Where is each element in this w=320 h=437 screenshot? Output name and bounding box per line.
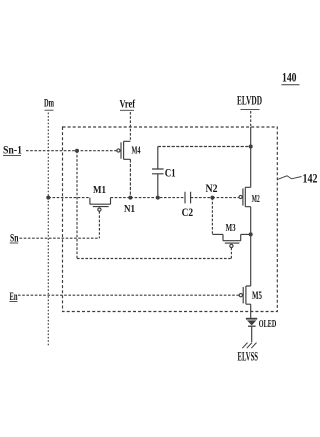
node junction data line / M1 row: [46, 196, 50, 200]
net label Sn: [10, 233, 19, 245]
svg-text:ELVSS: ELVSS: [238, 350, 259, 364]
net label Dm: [44, 96, 54, 111]
svg-text:142: 142: [303, 172, 318, 186]
transistor M3: [212, 222, 250, 247]
svg-text:ELVDD: ELVDD: [237, 94, 262, 108]
node junction on Sn-1: [75, 149, 79, 153]
capacitor C1: [152, 147, 176, 198]
wire N1 to C2: [130, 197, 185, 199]
label 140: [282, 69, 300, 84]
wire C2 to N2: [191, 197, 213, 199]
svg-text:Sn-1: Sn-1: [3, 143, 22, 157]
wire scan line Sn-1: [26, 150, 117, 152]
svg-text:N1: N1: [124, 203, 135, 215]
wire M1 gate lead: [98, 211, 100, 238]
wire N2 down to M3: [211, 198, 213, 235]
wire scan line Sn: [20, 237, 100, 239]
wire Vref lead: [129, 112, 131, 141]
wire M3 gate lead: [230, 248, 232, 259]
wire Sn-1 net vertical: [76, 151, 78, 259]
pixel boundary dashed box 142: [63, 127, 278, 312]
data line Dm (vertical dotted): [47, 113, 49, 347]
net label Sn-1: [3, 143, 22, 157]
label 142: [278, 172, 318, 186]
capacitor C2: [182, 192, 194, 219]
transistor M4: [117, 141, 141, 159]
transistor M2: [239, 187, 260, 206]
wire M5 drain to OLED: [250, 304, 252, 318]
wire OLED cathode lead: [251, 327, 253, 342]
ELVSS hatch marks: [242, 343, 256, 349]
wire M4 drain to N1: [129, 159, 131, 197]
wire ELVDD lead: [250, 111, 252, 127]
svg-text:M4: M4: [132, 145, 141, 157]
wire M1 to node N1: [111, 197, 131, 199]
wire data line to M1: [48, 197, 90, 199]
wire C1 top plate to ELVDD: [158, 146, 251, 148]
leader line to box: [278, 176, 302, 180]
svg-text:140: 140: [282, 69, 297, 84]
net label Vref: [120, 97, 136, 111]
svg-text:C1: C1: [165, 168, 176, 180]
wire M2 drain to M3/M5: [250, 207, 252, 286]
svg-text:N2: N2: [206, 183, 218, 195]
svg-text:M2: M2: [252, 193, 260, 205]
svg-text:M1: M1: [93, 184, 106, 196]
wire N2 to M2 gate: [212, 197, 239, 199]
transistor M1: [90, 184, 111, 211]
net label ELVDD: [237, 94, 262, 110]
node N2: [206, 183, 218, 200]
node junction M2 drain / M3: [249, 232, 253, 236]
svg-text:Vref: Vref: [120, 97, 136, 111]
wire Sn-1 net to M3 gate: [77, 258, 231, 260]
svg-text:OLED: OLED: [259, 319, 277, 330]
svg-text:C2: C2: [182, 207, 194, 219]
wire emission line En: [18, 294, 239, 296]
node junction ELVDD / C1: [249, 145, 253, 149]
diode OLED: [246, 319, 277, 330]
transistor M5: [239, 286, 262, 304]
node N1: [124, 196, 135, 215]
net label En: [10, 291, 18, 303]
svg-text:Dm: Dm: [44, 96, 54, 110]
node junction C1 tap: [156, 196, 160, 200]
svg-text:M3: M3: [226, 222, 236, 234]
svg-text:M5: M5: [252, 290, 262, 302]
